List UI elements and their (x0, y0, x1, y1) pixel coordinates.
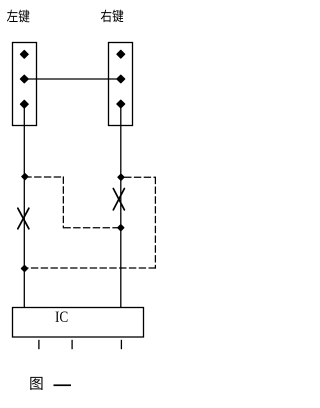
label 左键 (left button) (7, 10, 30, 23)
caption 图 (figure) (30, 377, 42, 390)
dashed wire: corner (155,177) down to (155,268) (154, 177, 156, 269)
dashed wire: node A toward corner (63,177) (24, 176, 64, 178)
left connector pin 1 (dot) (20, 50, 28, 58)
right connector pin 2 (dot) (117, 75, 125, 83)
left connector pin 3 (dot) (20, 100, 28, 108)
dashed wire: corner (155,268) to node C (24, 267, 156, 269)
right button connector S2 (box) (109, 43, 133, 126)
IC U1 (box) (13, 308, 144, 338)
left button connector S1 (box) (13, 43, 37, 126)
dashed wire: corner (63,228) to node D (63, 227, 118, 229)
switch contact K1 (left X) (18, 208, 29, 229)
dashed wire: node B toward corner (155,177) (124, 176, 156, 178)
switch contact K2 (right X) (113, 189, 124, 210)
wire: middle pins of both connectors (24, 78, 121, 80)
node C: junction lower left wire (21, 265, 27, 271)
left connector pin 2 (dot) (20, 75, 28, 83)
node A: junction on left wire (22, 174, 28, 180)
wire: left vertical to IC (23, 104, 25, 308)
IC label (56, 311, 68, 321)
label 右键 (right button) (101, 10, 124, 23)
caption 一 (one) (54, 384, 72, 386)
node B: junction on right wire (118, 174, 124, 180)
IC pin stub 3 (120, 340, 122, 349)
right connector pin 3 (dot) (117, 100, 125, 108)
wire: right vertical to IC (120, 104, 122, 308)
IC pin stub 2 (71, 340, 73, 349)
dashed wire: corner (63,177) down to (63,228) (62, 177, 64, 229)
right connector pin 1 (dot) (117, 50, 125, 58)
IC pin stub 1 (38, 340, 40, 349)
node D: junction lower right wire (118, 225, 124, 231)
